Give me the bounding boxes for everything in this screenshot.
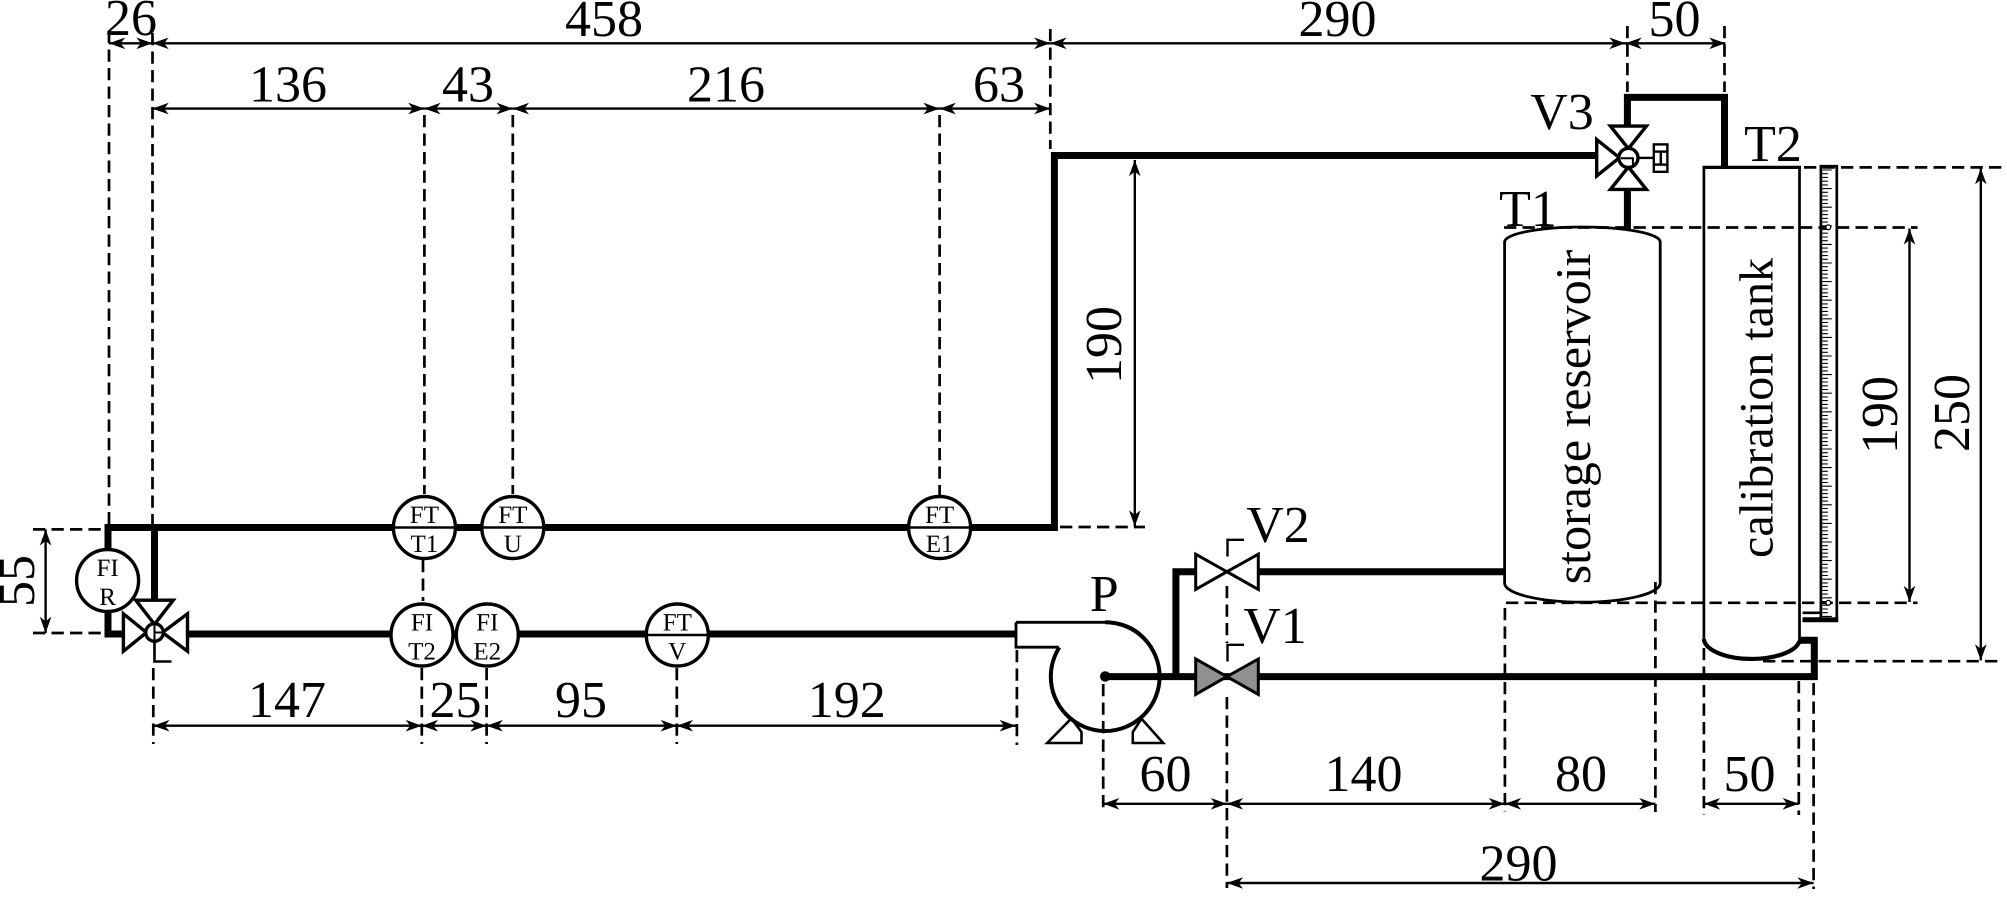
dimension line 63 — [940, 107, 1051, 109]
dimension line 192 — [677, 725, 1016, 727]
level gauge graduation ticks — [1822, 170, 1832, 616]
level gauge bottom nozzle (thick) — [1803, 617, 1839, 622]
extension line below FI E2 — [485, 668, 488, 744]
svg-text:R: R — [99, 584, 116, 611]
level gauge zero marker circle (top) — [1826, 225, 1831, 230]
extension line at drain elbow x=1813.6 — [1812, 683, 1815, 889]
svg-text:V3: V3 — [1530, 84, 1594, 141]
svg-text:290: 290 — [1299, 0, 1377, 48]
valve V2 (white gate valve on branch to T1) — [1196, 554, 1259, 589]
dimension line 25 — [422, 725, 487, 727]
svg-text:192: 192 — [808, 672, 886, 729]
svg-text:43: 43 — [442, 57, 494, 114]
svg-text:25: 25 — [430, 672, 482, 729]
tank T2 calibration tank body — [1704, 167, 1800, 659]
dimension line 290 bottom — [1227, 882, 1814, 884]
svg-text:60: 60 — [1140, 746, 1192, 803]
svg-text:storage reservoir: storage reservoir — [1545, 249, 1601, 584]
extension line T1 bottom reference — [1506, 601, 1918, 604]
tank T2 top line (thick) — [1703, 166, 1802, 169]
svg-text:FT: FT — [410, 502, 439, 529]
extension line below FT V — [675, 668, 678, 744]
pump P shaft dot — [1100, 671, 1110, 681]
extension line below FI T2 — [420, 668, 423, 744]
svg-text:190: 190 — [1852, 376, 1909, 454]
pump P impeller circle — [1051, 622, 1160, 731]
valve V2 stem mark — [1228, 540, 1245, 557]
extension line 55 top reference — [33, 528, 106, 531]
svg-text:T1: T1 — [411, 531, 439, 558]
level gauge bottom nozzle (thin) — [1803, 611, 1822, 614]
extension line below 3-way valve — [152, 668, 155, 744]
3-way valve stem (L mark below) — [155, 641, 172, 662]
svg-text:26: 26 — [105, 0, 157, 47]
svg-text:calibration tank: calibration tank — [1731, 258, 1784, 558]
valve V3 (3-way valve top right) — [1597, 126, 1647, 189]
extension line above FT E1 — [938, 115, 941, 495]
svg-text:190: 190 — [1076, 306, 1133, 384]
extension line at V3 center top — [1626, 26, 1629, 92]
svg-text:80: 80 — [1555, 746, 1607, 803]
svg-text:147: 147 — [248, 672, 326, 729]
dimension line 190 right vertical — [1908, 229, 1910, 603]
dimension line 136 — [153, 107, 425, 109]
svg-text:E2: E2 — [473, 639, 501, 666]
extension line T2 top reference — [1804, 166, 2003, 169]
wire: pump discharge pipe along bottom to T2 drain elbow — [1105, 640, 1814, 676]
svg-text:P: P — [1090, 566, 1119, 623]
extension line above FT T1 — [423, 115, 426, 494]
valve V1 stem mark — [1228, 645, 1245, 662]
dimension line 458 — [153, 42, 1051, 44]
wire: main loop pipe (left column, top run, riser, upper run to V3) — [108, 156, 1597, 551]
wire: pipe from V2 to storage reservoir T1 — [1258, 568, 1507, 575]
wire: pipe stub from top pipe down to 3-way valve — [151, 528, 158, 601]
dimension line 50 bottom — [1704, 803, 1799, 805]
instrument FT T1 flow transmitter — [393, 497, 455, 559]
pump P inlet box — [1016, 622, 1059, 647]
pump P right foot — [1133, 719, 1163, 743]
tank T2 bottom arc (thick) — [1704, 639, 1800, 659]
extension line at riser x=1050 — [1049, 29, 1052, 149]
extension line at pump inlet x=1016 — [1016, 650, 1019, 745]
pump P casing white cover (erase circle upper-left arc) — [1059, 622, 1105, 647]
valve V3 stem line to actuator — [1638, 157, 1654, 159]
wire: pipe stub below FI R to bottom pipe — [108, 610, 124, 634]
svg-text:FI: FI — [96, 555, 118, 582]
svg-text:55: 55 — [0, 555, 46, 607]
pump P volute outline — [1016, 622, 1160, 676]
3-way valve internal mark — [155, 624, 164, 641]
valve V3 internal mark — [1621, 158, 1633, 165]
svg-text:140: 140 — [1325, 746, 1403, 803]
svg-text:V: V — [668, 639, 686, 666]
dimension line 26 — [109, 42, 153, 44]
dimension line 55 vertical — [44, 529, 46, 633]
level gauge sight tube — [1821, 166, 1837, 620]
dimension line 80 — [1505, 803, 1656, 805]
svg-text:T2: T2 — [1744, 116, 1802, 173]
extension line between FT T1 and FI T2 — [422, 560, 425, 601]
pump P inlet box interior — [1016, 621, 1059, 646]
extension line below T1 right edge — [1654, 582, 1657, 812]
extension line T2 bottom reference — [1763, 660, 2003, 663]
valve V3 actuator box — [1654, 144, 1668, 171]
extension line at elbow right x=1724.5 — [1723, 26, 1726, 92]
svg-text:50: 50 — [1649, 0, 1701, 48]
svg-text:E1: E1 — [926, 531, 954, 558]
extension line below T2 left edge — [1703, 648, 1706, 815]
extension line below V1 — [1226, 697, 1229, 888]
dimension line 290 top — [1050, 42, 1625, 44]
instrument FT V flow transmitter — [646, 604, 708, 666]
svg-text:FT: FT — [498, 502, 527, 529]
dimension line 50 top — [1626, 42, 1726, 44]
svg-text:216: 216 — [687, 57, 765, 114]
svg-text:63: 63 — [973, 57, 1025, 114]
extension line 190 left bottom reference — [1060, 526, 1145, 529]
instrument FI T2 flow indicator — [391, 604, 453, 666]
svg-text:FT: FT — [925, 502, 954, 529]
extension line below T1 left edge — [1504, 608, 1507, 812]
wire: V3 upper elbow pipe over to calibration tank T2 — [1627, 97, 1724, 167]
svg-text:V2: V2 — [1246, 497, 1310, 554]
svg-text:T1: T1 — [1499, 181, 1557, 238]
wire: V3 bottom stub into storage reservoir T1 — [1624, 189, 1631, 234]
wire: bottom suction pipe from 3-way valve to pump inlet — [188, 631, 1041, 638]
svg-text:FI: FI — [411, 610, 433, 637]
extension line at pipe corner x=109 — [108, 31, 111, 524]
svg-text:T2: T2 — [408, 639, 436, 666]
valve V1 (gray gate valve on discharge pipe) — [1196, 659, 1259, 694]
instrument FI E2 flow indicator — [456, 604, 518, 666]
svg-text:V1: V1 — [1243, 598, 1307, 655]
dimension line 140 — [1227, 803, 1505, 805]
svg-text:50: 50 — [1724, 746, 1776, 803]
dimension line 147 — [153, 725, 422, 727]
svg-text:FT: FT — [663, 610, 692, 637]
svg-text:U: U — [504, 531, 522, 558]
pump P left foot — [1047, 719, 1081, 744]
level gauge marker circle (bottom) — [1826, 600, 1831, 605]
dimension line 216 — [513, 107, 940, 109]
extension line below pump center — [1102, 684, 1105, 812]
extension line at valve column x=152.5 — [151, 33, 154, 524]
3-way valve at left (loop selector) — [123, 600, 187, 651]
dimension line 95 — [487, 725, 677, 727]
instrument FT E1 flow transmitter — [909, 497, 971, 559]
extension line 55 bottom reference — [33, 632, 104, 635]
dimension line 60 — [1103, 803, 1227, 805]
dimension line 190 left vertical — [1134, 160, 1136, 527]
instrument FT U flow transmitter — [482, 497, 544, 559]
dimension line 43 — [424, 107, 512, 109]
extension line T1 top reference — [1504, 226, 1918, 229]
extension line above FT U — [511, 115, 514, 494]
instrument FI R flow indicator — [77, 550, 139, 612]
svg-text:FI: FI — [476, 610, 498, 637]
svg-text:458: 458 — [565, 0, 643, 48]
extension line between V2 and V1 — [1226, 586, 1229, 643]
dimension line 250 vertical — [1980, 168, 1982, 660]
tank T1 storage reservoir body — [1505, 227, 1661, 602]
svg-text:136: 136 — [249, 57, 327, 114]
wire: V2 branch riser from discharge pipe — [1176, 572, 1196, 679]
svg-text:290: 290 — [1480, 836, 1558, 893]
extension line below T2 right edge — [1797, 681, 1800, 815]
svg-text:95: 95 — [555, 672, 607, 729]
svg-text:250: 250 — [1924, 374, 1981, 452]
